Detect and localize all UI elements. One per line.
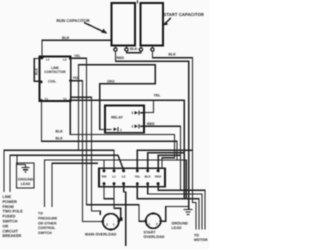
svg-text:SWITCH: SWITCH [38, 231, 52, 235]
svg-text:2: 2 [106, 223, 108, 227]
svg-text:TO: TO [194, 233, 199, 237]
svg-text:BLK: BLK [62, 36, 70, 40]
svg-text:1: 1 [120, 128, 122, 132]
svg-text:RELAY: RELAY [111, 116, 123, 120]
svg-text:COIL: COIL [48, 80, 56, 84]
svg-text:RED: RED [147, 122, 155, 126]
svg-text:GROUND: GROUND [172, 222, 189, 226]
svg-text:2: 2 [132, 125, 134, 129]
svg-text:POWER: POWER [3, 200, 18, 204]
svg-text:TO: TO [38, 212, 43, 216]
svg-text:BLK: BLK [56, 137, 64, 141]
svg-text:1: 1 [149, 222, 151, 226]
svg-text:L1: L1 [46, 58, 50, 62]
svg-text:BLK: BLK [130, 47, 138, 51]
svg-text:2: 2 [156, 222, 158, 226]
svg-text:CIRCUIT: CIRCUIT [3, 229, 19, 233]
svg-text:LEAD: LEAD [172, 226, 182, 230]
svg-text:RED: RED [155, 175, 162, 179]
svg-text:BLK: BLK [169, 53, 177, 57]
svg-text:GROUND: GROUND [18, 178, 34, 182]
svg-text:CONTACTOR: CONTACTOR [44, 70, 66, 74]
svg-text:MOTOR: MOTOR [194, 238, 208, 242]
svg-text:OR OTHER: OR OTHER [38, 221, 57, 225]
svg-text:FUSED: FUSED [3, 215, 16, 219]
svg-text:ORG: ORG [107, 79, 115, 83]
svg-text:SW: SW [102, 175, 107, 179]
svg-text:START: START [144, 230, 157, 234]
svg-text:SWITCH: SWITCH [3, 220, 18, 224]
svg-text:FROM: FROM [3, 205, 14, 209]
svg-text:OVERLOAD: OVERLOAD [144, 235, 165, 239]
svg-text:BLK: BLK [145, 175, 152, 179]
svg-text:RUN CAPACITOR: RUN CAPACITOR [57, 18, 90, 23]
svg-text:T1: T1 [45, 97, 49, 101]
svg-text:L2: L2 [63, 58, 67, 62]
svg-text:5: 5 [132, 111, 134, 115]
svg-text:YEL: YEL [154, 94, 162, 98]
svg-text:T2: T2 [63, 97, 67, 101]
svg-text:MAIN OVERLOAD: MAIN OVERLOAD [85, 232, 117, 236]
svg-text:LEAD: LEAD [21, 182, 31, 186]
svg-text:TWO POLE: TWO POLE [3, 210, 24, 214]
svg-text:PRESSURE: PRESSURE [38, 216, 58, 220]
svg-text:L2: L2 [122, 175, 126, 179]
svg-text:LINE: LINE [3, 195, 12, 199]
svg-text:RED: RED [117, 56, 125, 60]
svg-text:START CAPACITOR: START CAPACITOR [164, 12, 205, 17]
svg-text:BLK: BLK [56, 129, 64, 133]
svg-text:YEL: YEL [134, 175, 140, 179]
svg-text:BLK: BLK [35, 67, 39, 75]
svg-text:YEL: YEL [74, 54, 81, 58]
svg-text:L1: L1 [112, 175, 116, 179]
svg-text:CONTROL: CONTROL [38, 226, 56, 230]
svg-text:BREAKER: BREAKER [3, 234, 22, 238]
svg-text:1: 1 [113, 223, 115, 227]
svg-text:OR: OR [3, 224, 9, 228]
